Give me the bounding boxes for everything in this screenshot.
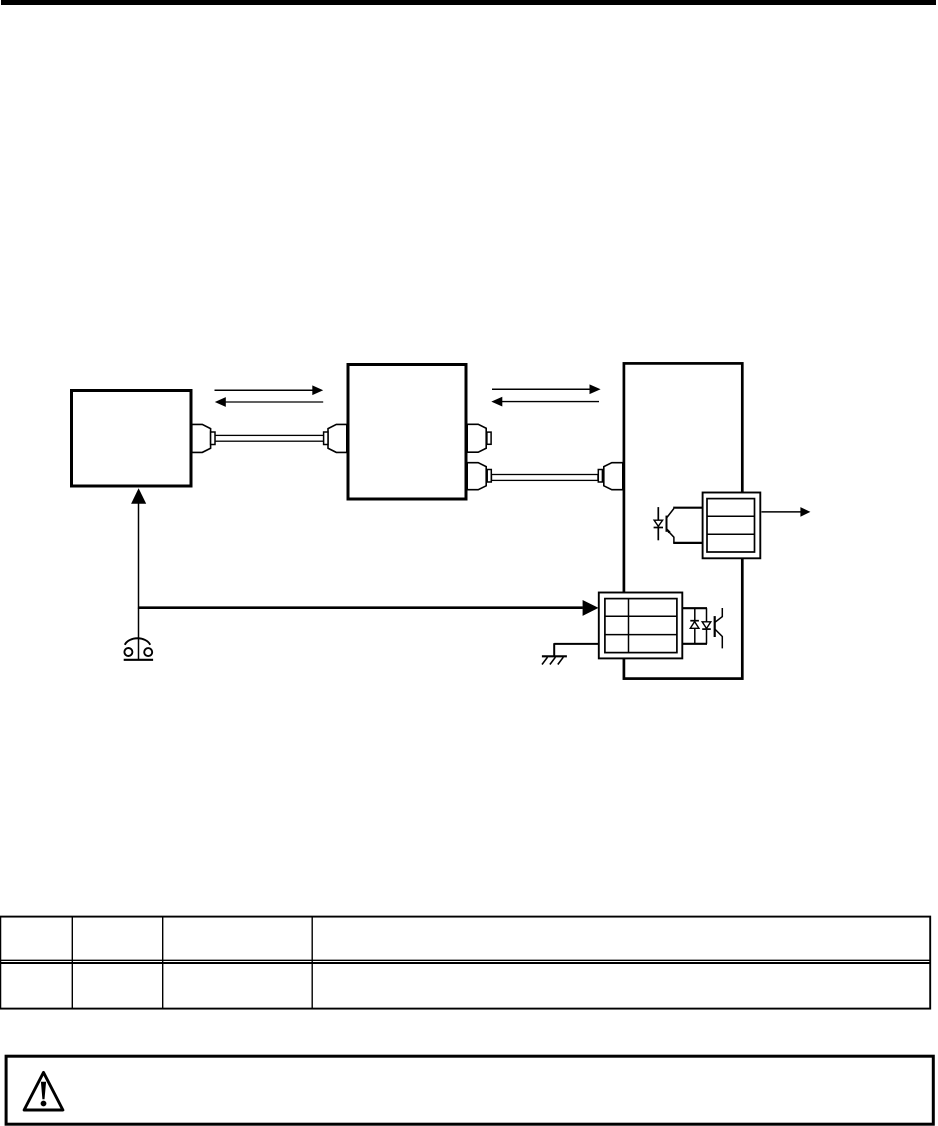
warning note box bbox=[6, 1056, 933, 1124]
wire: phototransistor emitter to block bbox=[673, 542, 702, 544]
warning triangle icon bbox=[24, 1072, 63, 1110]
arrow: e-stop signal into left unit bbox=[131, 488, 146, 608]
connector plug: middle unit upper-right (unused port) bbox=[467, 424, 491, 452]
arrow: middle-to-left signal bbox=[215, 397, 323, 407]
switch: emergency stop bbox=[124, 638, 153, 660]
connector plug: cable 1 left end bbox=[192, 424, 215, 452]
diode D1 (pointing up) bbox=[690, 621, 699, 629]
cable: middle unit to right unit bbox=[492, 475, 598, 481]
header rule bbox=[1, 0, 936, 5]
connector plug: cable 2 right end bbox=[598, 463, 623, 490]
box: control unit (left) bbox=[72, 391, 192, 487]
cable: left unit to middle unit bbox=[215, 435, 324, 441]
wire: diode branch 1 bbox=[694, 608, 696, 644]
transistor Q1 (IGBT) bbox=[715, 608, 723, 648]
connector plug: cable 1 right end bbox=[324, 424, 347, 452]
table bbox=[0, 917, 930, 1009]
block: power interface (lower) bbox=[599, 593, 683, 659]
block: output terminal (upper) bbox=[703, 493, 761, 559]
wire: horizontal signal line bbox=[139, 606, 583, 609]
wire: diode branch 2 bbox=[706, 608, 708, 644]
diode D2 (pointing down) bbox=[702, 622, 711, 629]
wire: interface block output bottom bbox=[682, 643, 707, 645]
optocoupler phototransistor bbox=[667, 509, 674, 543]
connector plug: cable 2 left end bbox=[467, 463, 491, 490]
box: amplifier unit (right) bbox=[624, 363, 742, 678]
wire: interface block output top bbox=[682, 607, 707, 609]
arrow: middle-to-right signal bbox=[492, 384, 601, 394]
arrow: right-to-middle signal bbox=[491, 397, 599, 407]
optocoupler LED bbox=[654, 507, 663, 540]
wire: phototransistor collector to block bbox=[673, 507, 702, 509]
ground bbox=[542, 643, 599, 664]
wire: drop to emergency stop switch bbox=[138, 608, 140, 660]
arrowhead: into power interface block bbox=[583, 600, 599, 616]
arrow: left-to-middle signal bbox=[215, 385, 324, 395]
box: main unit (middle) bbox=[348, 365, 466, 500]
arrow: block output to right bbox=[762, 507, 811, 517]
